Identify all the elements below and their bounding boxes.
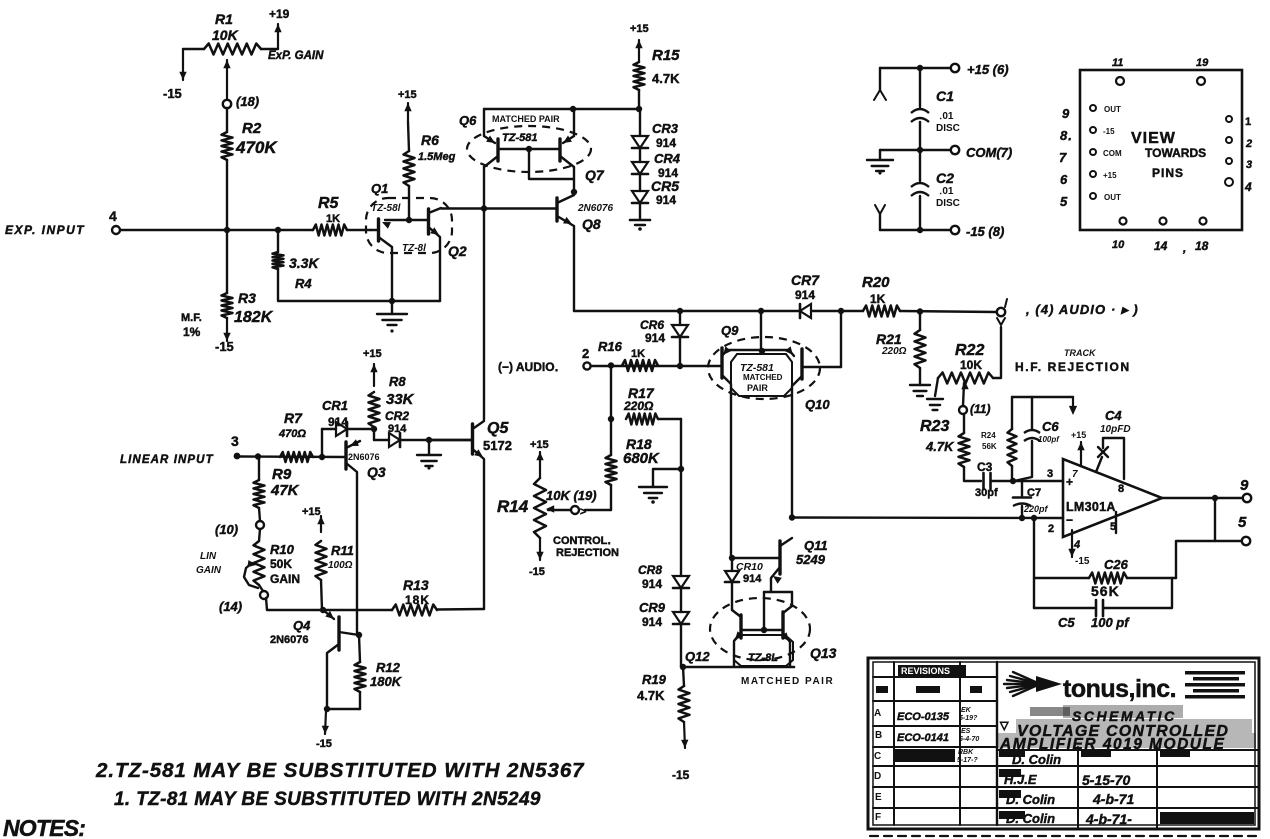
- wire R20 node to R21: [919, 311, 921, 330]
- wire op-amp output: [1162, 497, 1243, 499]
- wire top rail R24: [1011, 397, 1013, 429]
- transistor Q8: [557, 195, 574, 311]
- svg-text:CONTROL․: CONTROL․: [553, 535, 611, 547]
- node junction 611/419: [608, 416, 614, 422]
- terminal (14): [219, 591, 268, 614]
- rev letter F: [875, 812, 881, 823]
- wire R11 +15 arrow: [317, 516, 324, 532]
- label MATCHED (Q9/Q10): [743, 373, 783, 382]
- svg-text:EK: EK: [961, 707, 972, 714]
- label MATCHED PAIR (top): [492, 114, 560, 124]
- resistor R15: [634, 62, 645, 90]
- svg-text:GAIN: GAIN: [270, 572, 300, 586]
- svg-text:R24: R24: [981, 431, 996, 440]
- resistor R5: [313, 225, 347, 236]
- svg-text:5-17-?: 5-17-?: [957, 757, 978, 764]
- svg-text:Q7: Q7: [585, 167, 605, 183]
- terminal 5 (output): [1238, 514, 1250, 545]
- label R11 100: [328, 543, 354, 571]
- label M.F. 1%: [181, 312, 202, 339]
- svg-text:-15: -15: [316, 738, 332, 750]
- svg-text:4: 4: [1073, 539, 1080, 551]
- svg-text:R7: R7: [284, 410, 303, 426]
- svg-text:10K: 10K: [960, 358, 982, 372]
- svg-text:4: 4: [109, 208, 117, 224]
- svg-text:C: C: [874, 751, 881, 762]
- svg-text:220pf: 220pf: [1023, 504, 1049, 514]
- svg-text:R22: R22: [955, 342, 984, 359]
- svg-text:914: 914: [642, 615, 662, 629]
- wire Q8 emitter rail: [574, 310, 863, 312]
- node junction 920/311: [917, 308, 923, 314]
- node junction 683/667: [680, 664, 686, 670]
- label C1 .01 DISC: [936, 88, 960, 134]
- label R3 182K: [234, 290, 274, 326]
- svg-text:5172: 5172: [483, 438, 512, 453]
- svg-text:ES: ES: [961, 728, 971, 735]
- label C5 100pf: [1058, 615, 1130, 630]
- wire -audio to Q9 base: [591, 365, 722, 367]
- title VOLTAGE CONTROLLED: [1017, 723, 1229, 740]
- svg-text:C26: C26: [1104, 557, 1129, 572]
- wiper R14: [546, 505, 586, 518]
- svg-text:COM: COM: [1103, 149, 1122, 158]
- wire R3 to -15: [223, 318, 230, 341]
- label VIEW TOWARDS PINS: [1131, 130, 1206, 180]
- svg-text:R8: R8: [389, 374, 406, 389]
- svg-text:18K: 18K: [405, 593, 430, 607]
- svg-text:, (4) AUDIO · ▸ ): , (4) AUDIO · ▸ ): [1025, 302, 1139, 317]
- wire wiper to R18: [585, 509, 611, 511]
- transistor Q12 (pair left): [732, 610, 743, 666]
- svg-text:2: 2: [1245, 138, 1252, 150]
- svg-text:5249: 5249: [796, 552, 826, 567]
- svg-text:REJECTION: REJECTION: [556, 547, 619, 559]
- svg-text:R3: R3: [238, 290, 256, 306]
- svg-text:R23: R23: [920, 418, 949, 435]
- svg-text:914: 914: [645, 331, 665, 345]
- wire R5 to Q1 base: [347, 229, 371, 231]
- label (11): [970, 402, 990, 416]
- wire CR1 to node: [348, 428, 374, 430]
- svg-text:+19: +19: [269, 7, 290, 21]
- label CR6 914: [640, 318, 665, 345]
- svg-text:56K: 56K: [1091, 583, 1120, 599]
- svg-text:F: F: [875, 812, 881, 823]
- label C7 220pf: [1023, 487, 1049, 514]
- label 3.3K R4: [289, 255, 319, 291]
- svg-text:C7: C7: [1027, 487, 1041, 499]
- resistor R7: [280, 452, 313, 462]
- svg-text:180K: 180K: [370, 674, 403, 689]
- wire -15 rail: [880, 227, 951, 233]
- label Q2: [448, 243, 467, 259]
- pin 6 +15: [1060, 171, 1117, 187]
- label CR5 914: [651, 178, 679, 207]
- terminal 3 (linear input): [231, 433, 240, 459]
- transistor Q10 (pair right): [785, 346, 802, 517]
- wire (10) to R10: [259, 529, 260, 541]
- svg-text:-15: -15: [529, 566, 545, 578]
- antenna mark left bottom: [875, 205, 885, 230]
- svg-text:2N6076: 2N6076: [577, 203, 613, 214]
- svg-text:4-b-71: 4-b-71: [1092, 791, 1134, 807]
- ground (R18): [639, 487, 667, 504]
- svg-text:(−) AUDIO․: (−) AUDIO․: [498, 360, 559, 374]
- terminal 2 (-audio): [582, 346, 591, 370]
- svg-text:2N6076: 2N6076: [348, 452, 380, 462]
- svg-text:R11: R11: [331, 543, 354, 558]
- resistor R8: [369, 364, 380, 440]
- label C4 10pFD: [1100, 408, 1131, 435]
- label TZ-81 (Q2): [402, 243, 426, 254]
- svg-text:914: 914: [642, 577, 662, 591]
- diode CR10: [725, 558, 739, 610]
- label (18): [236, 94, 259, 109]
- pin 18 bottom: [1182, 218, 1209, 256]
- svg-text:R2: R2: [242, 120, 262, 137]
- svg-text:Q13: Q13: [810, 645, 837, 661]
- wire rail to CR3: [639, 109, 641, 136]
- terminal -15(8): [951, 224, 1004, 239]
- svg-text:2: 2: [582, 346, 589, 361]
- svg-text:-15: -15: [1075, 556, 1090, 567]
- svg-text:220Ω: 220Ω: [623, 399, 654, 413]
- transistor Q4: [323, 610, 359, 709]
- pin 14 bottom: [1154, 218, 1168, 254]
- svg-text:11: 11: [1112, 57, 1123, 69]
- capacitor C6: [1014, 397, 1040, 481]
- wire feedback right: [1175, 541, 1177, 578]
- label Q12: [685, 649, 710, 664]
- pin 10 bottom: [1112, 218, 1127, 252]
- wire R18 to wiper: [610, 485, 612, 510]
- resistor R18: [606, 455, 617, 485]
- label +19: [269, 7, 290, 21]
- svg-text:Q3: Q3: [367, 464, 386, 480]
- diode CR3: [632, 136, 648, 148]
- wire CR5 to ground: [639, 203, 641, 219]
- dashed outline Q9/Q10: [708, 337, 820, 399]
- label LIN GAIN: [196, 551, 222, 576]
- label LINEAR INPUT: [120, 454, 214, 466]
- wire rail y397: [1012, 396, 1073, 398]
- capacitor C5: [1034, 578, 1172, 616]
- svg-text:EXP. INPUT: EXP. INPUT: [5, 223, 85, 237]
- resistor R9: [254, 457, 265, 508]
- label R16 1K: [598, 339, 645, 360]
- svg-text:+15: +15: [302, 506, 321, 518]
- label Q5 5172: [483, 420, 512, 453]
- label -15 (Q4): [316, 738, 332, 750]
- capacitor C2: [911, 150, 929, 230]
- transistor Q1: [371, 219, 428, 301]
- svg-text:ECO-0141: ECO-0141: [897, 732, 949, 744]
- wire linear input: [240, 455, 346, 458]
- label C26 56K: [1091, 557, 1129, 599]
- wire to -15 (Q4): [322, 711, 329, 734]
- svg-text:C6: C6: [1042, 419, 1059, 434]
- label R6 1.5Meg: [418, 132, 456, 163]
- svg-text:-15 (8): -15 (8): [966, 224, 1004, 239]
- svg-text:LINEAR INPUT: LINEAR INPUT: [120, 454, 214, 466]
- wire CR3-CR4: [639, 148, 641, 162]
- svg-text:,: ,: [1182, 241, 1186, 255]
- wire 681 vertical: [680, 419, 682, 576]
- svg-text:680K: 680K: [623, 450, 660, 467]
- resistor R24: [1008, 429, 1017, 466]
- label R21 220: [876, 331, 907, 357]
- resistor R22: [938, 373, 993, 384]
- svg-text:MATCHED PAIR: MATCHED PAIR: [741, 676, 834, 687]
- svg-text:CR8: CR8: [638, 563, 662, 577]
- svg-text:30pf: 30pf: [975, 487, 998, 499]
- node junction exp2: [275, 227, 281, 233]
- svg-text:8․: 8․: [1060, 128, 1072, 143]
- wire to op-amp pin3: [1013, 480, 1063, 482]
- svg-text:Q8: Q8: [582, 216, 601, 232]
- svg-text:CR5: CR5: [651, 178, 679, 194]
- node junction 732/558: [729, 555, 735, 561]
- svg-text:TZ-581: TZ-581: [502, 132, 537, 144]
- svg-text:+15: +15: [398, 89, 417, 101]
- resistor R12: [355, 635, 366, 709]
- svg-text:tonus,inc.: tonus,inc.: [1063, 675, 1176, 703]
- svg-text:914: 914: [795, 288, 815, 302]
- node junction 760/311: [758, 308, 764, 314]
- svg-text:-15: -15: [163, 86, 182, 101]
- svg-text:E: E: [875, 792, 882, 803]
- svg-text:100pf: 100pf: [1038, 435, 1060, 444]
- wire R14 +15 arrow: [536, 452, 543, 478]
- svg-text:914: 914: [743, 573, 762, 585]
- wire R4 to ground rail: [278, 269, 440, 301]
- transistor Q11: [732, 538, 792, 592]
- label R2 470K: [235, 120, 278, 157]
- wire R1 wiper to R2: [226, 108, 228, 132]
- wire R23 to C3: [964, 467, 981, 481]
- op-amp V- pin 4: [1068, 530, 1090, 567]
- node junction 429/440: [426, 437, 432, 443]
- wire R20 to audio out: [900, 311, 996, 312]
- svg-text:10K: 10K: [212, 27, 239, 43]
- svg-text:R1: R1: [215, 11, 233, 27]
- node junction 574/192: [571, 189, 577, 195]
- wire feedback left: [1031, 515, 1037, 608]
- svg-text:7: 7: [1059, 150, 1067, 165]
- label 2N6076 (Q3): [348, 452, 380, 462]
- svg-text:(18): (18): [236, 94, 259, 109]
- svg-text:50K: 50K: [270, 557, 292, 571]
- svg-text:+15: +15: [630, 23, 649, 35]
- op-amp pin 5 stub: [1110, 512, 1116, 533]
- diode CR6: [672, 311, 688, 366]
- svg-text:C1: C1: [936, 88, 954, 104]
- node junction 484/208: [481, 205, 487, 211]
- svg-text:6: 6: [1060, 172, 1068, 187]
- logo tonus inc speed lines: [1004, 672, 1062, 696]
- svg-text:(11): (11): [970, 402, 990, 416]
- resistor R3: [222, 293, 233, 318]
- transistor Q6 (matched pair left): [484, 109, 498, 167]
- svg-text:․01: ․01: [939, 111, 954, 122]
- label NOTES:: [3, 815, 85, 839]
- wire 611 vertical: [610, 366, 612, 455]
- svg-text:5-19?: 5-19?: [959, 715, 978, 722]
- svg-text:LIN: LIN: [200, 551, 217, 562]
- label R1 10K: [212, 11, 239, 43]
- terminal 9 (output): [1240, 477, 1251, 502]
- wire CR4-CR5: [639, 174, 641, 191]
- svg-text:914: 914: [328, 415, 348, 429]
- wiper R10 (lin gain): [244, 560, 258, 588]
- capacitor C4: [1096, 438, 1124, 479]
- label EXP. GAIN: [268, 50, 324, 62]
- svg-text:D. Colin: D. Colin: [1006, 792, 1055, 807]
- svg-text:B: B: [875, 730, 882, 741]
- resistor R6: [404, 122, 415, 186]
- resistor R11: [316, 541, 327, 610]
- ground (CR2 node): [417, 440, 441, 470]
- label CR7 914: [791, 272, 820, 302]
- pin 2 right: [1226, 137, 1252, 150]
- pin 1 right: [1226, 116, 1251, 128]
- svg-text:REVISIONS: REVISIONS: [901, 666, 950, 676]
- node junction C7 bottom: [1019, 515, 1025, 521]
- terminal +15(6): [951, 62, 1009, 77]
- node junction 792/517: [789, 514, 795, 520]
- node junction R6: [406, 217, 412, 223]
- svg-text:1K: 1K: [326, 213, 340, 225]
- label Q11 5249: [796, 538, 828, 567]
- svg-text:914: 914: [388, 423, 407, 435]
- svg-text:470Ω: 470Ω: [278, 428, 306, 440]
- svg-text:LM301A: LM301A: [1066, 500, 1116, 514]
- rev letter D: [874, 771, 881, 782]
- svg-text:DISC: DISC: [936, 198, 960, 209]
- label PAIR (Q9/Q10): [747, 383, 768, 393]
- svg-text:8: 8: [1118, 483, 1124, 495]
- svg-text:3.3K: 3.3K: [289, 255, 319, 271]
- svg-text:D. Colin: D. Colin: [1012, 752, 1061, 767]
- label R18 680K: [623, 436, 660, 467]
- label +15 (R14): [530, 439, 549, 451]
- node junction 680/311: [677, 308, 683, 314]
- label R19 4.7K: [637, 672, 667, 703]
- svg-text:OUT: OUT: [1104, 193, 1121, 202]
- resistor R4: [273, 252, 284, 269]
- label R5 1K: [318, 195, 340, 225]
- svg-text:1K: 1K: [870, 292, 886, 306]
- label CONTROL REJECTION: [553, 535, 619, 559]
- rev B entry: [897, 728, 979, 744]
- diode CR4: [632, 162, 648, 174]
- node junction 680/366: [677, 363, 683, 369]
- svg-text:1%: 1%: [183, 325, 201, 339]
- title block frame: [868, 658, 1259, 829]
- sig row 3: [999, 790, 1134, 807]
- svg-text:PINS: PINS: [1152, 166, 1184, 180]
- wire node to R4: [277, 230, 279, 252]
- node junction 573/109: [570, 106, 576, 112]
- svg-text:Q6: Q6: [459, 113, 477, 128]
- svg-text:OUT: OUT: [1104, 105, 1121, 114]
- scan artifact bottom dashes: [870, 835, 1256, 837]
- svg-text:R10: R10: [270, 542, 295, 557]
- wire CR2 to Q5 base: [401, 439, 472, 441]
- wire R24 to node: [1011, 466, 1013, 481]
- diode CR5: [632, 191, 648, 203]
- sig row 4: [999, 811, 1254, 827]
- svg-text:R12: R12: [376, 660, 401, 675]
- svg-text:A: A: [874, 708, 881, 719]
- label R15 4.7K: [652, 47, 680, 86]
- svg-text:Q4: Q4: [293, 618, 311, 633]
- svg-text:−: −: [1066, 513, 1073, 527]
- resistor R16: [622, 360, 658, 371]
- node junction 841/311: [838, 308, 844, 314]
- svg-text:R9: R9: [272, 466, 292, 483]
- wire top rail y109: [484, 108, 640, 110]
- pin 8 -15: [1060, 127, 1115, 143]
- svg-text:CR1: CR1: [322, 398, 348, 413]
- resistor R14 (pot): [534, 478, 546, 538]
- svg-text:NOTES:: NOTES:: [3, 815, 85, 839]
- svg-text:3: 3: [1246, 159, 1252, 171]
- svg-text:>: >: [580, 506, 586, 518]
- label R8 33K: [386, 374, 415, 408]
- rev letter B: [875, 730, 882, 741]
- wire node to CR2: [374, 439, 389, 441]
- svg-text:5: 5: [1238, 514, 1247, 531]
- wire output to pin5 terminal: [1177, 498, 1242, 541]
- wire riser to CR1: [322, 429, 336, 457]
- label R24 56K: [981, 431, 997, 451]
- svg-text:R13: R13: [403, 577, 429, 593]
- wire Q6/Q7 base tie: [498, 146, 573, 179]
- svg-text:2.TZ-581 MAY BE SUBSTITUTED WI: 2.TZ-581 MAY BE SUBSTITUTED WITH 2N5367: [95, 759, 585, 782]
- resistor R13: [392, 605, 437, 616]
- wire R22 left to ground: [935, 378, 938, 396]
- wire to R18 ground: [653, 469, 681, 487]
- logo tonus inc text: [1063, 675, 1176, 703]
- label -15 (R14): [529, 566, 545, 578]
- svg-text:+15: +15: [1071, 430, 1086, 440]
- transistor Q9 (pair left): [722, 346, 789, 558]
- op-amp V+ pin 7: [1071, 430, 1086, 480]
- wire (11) to R23: [963, 414, 965, 433]
- capacitor C3: [984, 473, 1014, 489]
- pin 3 right: [1226, 158, 1252, 171]
- logo address block: [1185, 671, 1245, 699]
- svg-text:2: 2: [1048, 523, 1054, 535]
- wire R6 +15 arrow: [404, 103, 411, 122]
- ground arrow (C6 rail): [1069, 397, 1077, 415]
- wire CR8-CR9: [680, 588, 682, 612]
- note 1: [114, 789, 541, 810]
- resistor R1 (10K exp gain pot): [179, 24, 281, 108]
- wire Q11 emitter to pair: [764, 592, 792, 630]
- svg-text:4-b-71-: 4-b-71-: [1085, 811, 1132, 827]
- label R22 10K: [955, 342, 984, 372]
- label Q10: [805, 397, 830, 412]
- svg-text:R19: R19: [642, 672, 667, 687]
- wire 761 vertical: [760, 311, 762, 351]
- label CR4 914: [654, 151, 681, 180]
- terminal (10): [215, 521, 264, 537]
- terminal 4 (exp input): [109, 208, 120, 234]
- svg-text:Q5: Q5: [487, 420, 509, 437]
